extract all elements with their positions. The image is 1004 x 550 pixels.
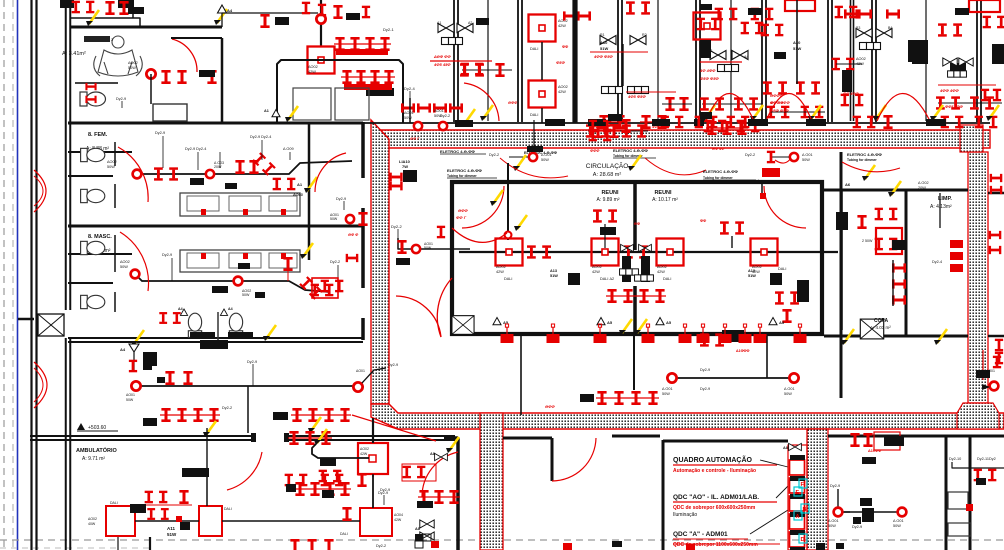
red wire diag bbox=[352, 415, 436, 441]
cluster right of column 1 bbox=[567, 431, 569, 433]
wall bottom center vertical bbox=[456, 438, 460, 550]
sink counter FEM bbox=[180, 193, 300, 216]
wall ambulatorio top bbox=[30, 436, 455, 440]
door arc amb bbox=[227, 452, 262, 490]
bowties bc bottom bbox=[415, 520, 434, 540]
wire REUNI main bbox=[459, 251, 838, 253]
svg-text:Dy2-9: Dy2-9 bbox=[155, 131, 165, 135]
office G lamp rows bbox=[936, 96, 1002, 128]
fixture south 4 bbox=[679, 324, 692, 343]
lamp row mid2 bbox=[341, 70, 395, 90]
text A 3.41 bbox=[62, 51, 86, 57]
text O01 circ west bbox=[424, 242, 433, 250]
wall LIMP divider bbox=[905, 190, 908, 336]
wall office partition 2 bbox=[618, 0, 622, 122]
lamp top 1 bbox=[105, 1, 144, 15]
wall big room top bbox=[503, 436, 660, 481]
wire reuni box1 riser bbox=[505, 163, 512, 240]
svg-text:DALI: DALI bbox=[778, 267, 786, 271]
svg-text:A6: A6 bbox=[845, 182, 851, 187]
svg-text:50W: 50W bbox=[126, 398, 134, 402]
office3 box bbox=[694, 13, 721, 40]
yellow arrows circ south bbox=[619, 319, 647, 335]
office B lamp rows bbox=[586, 124, 648, 137]
svg-text:DALI: DALI bbox=[110, 501, 118, 505]
svg-text:Δ O01: Δ O01 bbox=[662, 387, 673, 391]
svg-text:ELETROC 4-Θ-ΦΦ: ELETROC 4-Θ-ΦΦ bbox=[703, 169, 739, 174]
wall LIMP bottom bbox=[824, 335, 968, 338]
door arcs left upper bbox=[34, 170, 46, 212]
black rects top extra bbox=[476, 8, 969, 59]
svg-text:42W: 42W bbox=[360, 452, 368, 456]
wire FEM ceiling bbox=[137, 161, 352, 174]
wall ambulatorio door jambs bbox=[251, 433, 289, 442]
yellow arrow top 2 bbox=[214, 9, 227, 25]
svg-text:Φ5Φ Φ5Φ: Φ5Φ Φ5Φ bbox=[770, 108, 789, 113]
blackrect bc bbox=[320, 458, 336, 466]
wire limp right bbox=[939, 193, 941, 228]
wall stub bottom left bbox=[118, 537, 150, 550]
svg-text:ΦΦ 4ΦΦ: ΦΦ 4ΦΦ bbox=[843, 92, 860, 96]
text Dy2-4 right bbox=[404, 86, 415, 98]
text AMBULATORIO bbox=[76, 446, 118, 462]
cluster below band right bbox=[700, 332, 749, 353]
office1 text O01 bbox=[434, 109, 444, 118]
blackrect REUNI 1 bbox=[550, 269, 580, 285]
limp cluster lamps bbox=[857, 208, 897, 251]
box labels REUNI bbox=[496, 265, 786, 281]
door arc wc bbox=[172, 39, 197, 72]
stems FEM bbox=[163, 136, 290, 170]
battery amb mid bbox=[294, 482, 351, 496]
band text 5 bbox=[524, 151, 557, 155]
conduit riser office 0 bbox=[487, 0, 489, 121]
svg-text:Δ O09: Δ O09 bbox=[283, 147, 294, 151]
office1 red wire bbox=[430, 60, 492, 62]
svg-text:42W: 42W bbox=[856, 62, 864, 66]
hatched column bottom center bbox=[480, 413, 503, 550]
svg-text:ΔO04: ΔO04 bbox=[394, 513, 403, 517]
blackrect amb bbox=[182, 468, 334, 498]
office2 red texts bbox=[556, 45, 568, 65]
door threshold rects bbox=[694, 119, 946, 126]
lamp row above wire bbox=[334, 13, 391, 55]
corridor fixtures above band bbox=[589, 114, 631, 133]
lamp pair wc low bbox=[85, 83, 96, 103]
office D lamp rows bbox=[700, 97, 762, 132]
callout lines quadro bbox=[750, 460, 788, 534]
stems MASC bbox=[172, 258, 338, 282]
text A1 FEM bbox=[292, 182, 304, 197]
svg-text:A: 10.17 m²: A: 10.17 m² bbox=[652, 197, 678, 203]
text Dy2-9 wc bbox=[116, 97, 126, 108]
wire top mid bbox=[222, 6, 370, 27]
door arc FEM right bbox=[315, 153, 346, 192]
svg-text:51W: 51W bbox=[600, 46, 608, 51]
lamp pair top left bbox=[72, 1, 95, 14]
svg-text:ΔO01: ΔO01 bbox=[986, 369, 995, 373]
yellow arrows wall right bbox=[841, 329, 947, 345]
wall left outer bbox=[32, 0, 37, 550]
yellow arrow corridor 3 bbox=[873, 105, 886, 121]
wall right margin top bbox=[988, 193, 1004, 336]
battery bc 2 bbox=[417, 490, 460, 508]
svg-text:ΔO02: ΔO02 bbox=[308, 65, 318, 69]
svg-text:Tubing for dimmer: Tubing for dimmer bbox=[847, 158, 877, 162]
svg-text:ΘΦ Γ: ΘΦ Γ bbox=[410, 137, 420, 141]
office3 lamp row bbox=[706, 121, 748, 135]
svg-text:ΦΦ5 4ΦΦ: ΦΦ5 4ΦΦ bbox=[945, 105, 964, 109]
riser 575 thick bbox=[573, 0, 577, 123]
text FEM bbox=[86, 132, 109, 152]
fixture south 0 bbox=[501, 324, 514, 343]
svg-text:A1: A1 bbox=[437, 21, 441, 25]
svg-text:A13: A13 bbox=[748, 269, 755, 273]
svg-text:Dy2-4: Dy2-4 bbox=[932, 260, 942, 264]
node door right bbox=[760, 193, 766, 199]
wall QUADRO room bbox=[663, 440, 788, 550]
door arc REUNI right bbox=[764, 186, 806, 228]
svg-text:ΔO02: ΔO02 bbox=[558, 85, 568, 89]
limp cluster box bbox=[876, 228, 902, 254]
text br red bbox=[868, 449, 881, 453]
svg-text:ΔΘΦ ΦΦ: ΔΘΦ ΦΦ bbox=[433, 54, 451, 59]
svg-text:ΘΦ: ΘΦ bbox=[634, 222, 640, 226]
yellow arrow corridor 1 bbox=[750, 105, 763, 121]
red fixture band right bbox=[762, 151, 791, 177]
fixture south 5 bbox=[697, 324, 710, 343]
svg-text:REUNI: REUNI bbox=[654, 190, 672, 196]
svg-text:DALI Δ2: DALI Δ2 bbox=[600, 277, 614, 281]
svg-text:42W: 42W bbox=[558, 24, 566, 28]
text Dy2-1 bbox=[383, 27, 394, 32]
xbox column left lower bbox=[38, 314, 64, 336]
svg-text:Δ O01: Δ O01 bbox=[828, 519, 839, 523]
svg-text:Dy2-2: Dy2-2 bbox=[222, 406, 232, 410]
wire circ south 2 bbox=[633, 336, 635, 390]
wall MASC stall bbox=[68, 253, 132, 255]
fixture south 7 bbox=[794, 324, 807, 343]
texts FEM wire bbox=[155, 131, 294, 151]
svg-text:20W: 20W bbox=[918, 186, 926, 190]
reuni small marks bbox=[634, 219, 706, 226]
blackrect corr top bbox=[200, 340, 228, 349]
top corner black rects bbox=[60, 0, 928, 64]
svg-text:A: 28.68 m²: A: 28.68 m² bbox=[593, 172, 622, 178]
svg-text:42W: 42W bbox=[394, 518, 402, 522]
node wc ceiling bbox=[146, 69, 155, 78]
svg-text:Dy2-2: Dy2-2 bbox=[376, 544, 386, 548]
cluster band corner bbox=[389, 137, 420, 190]
band text 1 bbox=[440, 149, 486, 154]
office F lamps2 bbox=[832, 58, 862, 71]
yellow arrow corridor 0 bbox=[702, 105, 715, 121]
office C red texts 2 bbox=[626, 92, 676, 99]
office5 wire bbox=[796, 0, 798, 84]
cluster br lamps bbox=[850, 432, 900, 450]
yellow arrow corr bl bbox=[263, 325, 276, 341]
svg-text:QDC de sobrepor 600x600x250mm: QDC de sobrepor 600x600x250mm bbox=[673, 505, 756, 511]
fixture south 2 bbox=[594, 324, 607, 343]
svg-text:A5: A5 bbox=[666, 320, 672, 325]
battery circ south bbox=[580, 391, 659, 405]
svg-text:Δ O01: Δ O01 bbox=[893, 519, 904, 523]
text dy corr bbox=[247, 360, 257, 386]
svg-text:20W: 20W bbox=[214, 165, 222, 169]
band text 2 bbox=[447, 168, 497, 178]
svg-text:A13: A13 bbox=[550, 269, 557, 273]
sink faucets FEM bbox=[201, 209, 286, 215]
hatched corridor wall band top bbox=[373, 130, 990, 148]
door arc big room bbox=[552, 438, 596, 481]
office C lamps top bbox=[626, 1, 692, 111]
svg-text:A4: A4 bbox=[178, 307, 183, 311]
bowtie array office3 bbox=[600, 33, 649, 94]
text automacao sub bbox=[673, 468, 756, 474]
red wire limp bbox=[842, 162, 900, 172]
yellow arrow reuni nw bbox=[514, 215, 527, 231]
svg-text:ΘΦ Φ: ΘΦ Φ bbox=[348, 233, 359, 237]
office4 lamps top bbox=[715, 8, 774, 21]
red marks circ south bbox=[545, 404, 555, 409]
svg-text:ΔO01: ΔO01 bbox=[404, 111, 414, 115]
door arc amb right bbox=[422, 452, 458, 497]
node corr left bbox=[126, 381, 141, 402]
svg-text:ΘΦΦ: ΘΦΦ bbox=[545, 404, 555, 409]
svg-text:42W: 42W bbox=[496, 270, 504, 274]
svg-text:42W: 42W bbox=[657, 270, 665, 274]
svg-text:A: A bbox=[796, 514, 800, 520]
office2 lamps red bbox=[563, 11, 591, 20]
red box amb 2 bbox=[199, 506, 232, 536]
svg-text:A5: A5 bbox=[607, 320, 613, 325]
svg-text:A4: A4 bbox=[744, 55, 748, 59]
svg-text:+503.60: +503.60 bbox=[88, 425, 106, 431]
svg-text:A: 4.03 m²: A: 4.03 m² bbox=[870, 325, 891, 330]
wire br dy bbox=[830, 484, 850, 512]
texts amb dy bbox=[376, 491, 388, 548]
wall office partition 1 bbox=[518, 0, 522, 122]
toilet MASC L2 bbox=[81, 295, 105, 308]
xbox REUNI left wall bbox=[452, 316, 474, 335]
svg-text:COPA: COPA bbox=[874, 318, 888, 324]
red conduit curve reuni bbox=[452, 208, 507, 242]
svg-text:A8: A8 bbox=[415, 527, 420, 531]
svg-text:A8: A8 bbox=[783, 446, 788, 450]
blackrect REUNI 2 bbox=[748, 269, 782, 285]
svg-text:Dy2-9 Dy2-4: Dy2-9 Dy2-4 bbox=[250, 135, 271, 139]
svg-text:Dy2-9: Dy2-9 bbox=[852, 525, 862, 529]
cluster br black bbox=[862, 436, 904, 464]
door arc REUNI left bbox=[462, 186, 504, 228]
red box amb 1 bbox=[88, 501, 135, 536]
wire corr drop bbox=[247, 386, 249, 433]
svg-text:ELETROC 4-Θ-ΦΦ: ELETROC 4-Θ-ΦΦ bbox=[847, 152, 883, 157]
xbox COPA bbox=[860, 319, 883, 339]
text O02 50W bbox=[128, 61, 138, 70]
text box bc bbox=[360, 447, 369, 456]
svg-text:50W: 50W bbox=[784, 392, 792, 396]
lamp amb extra bbox=[319, 470, 352, 521]
lamps MASC 1 bbox=[283, 257, 292, 281]
wire circ south 3 bbox=[766, 336, 768, 378]
svg-text:8. MASC.: 8. MASC. bbox=[88, 234, 112, 240]
svg-text:R2: R2 bbox=[642, 33, 647, 37]
bowtie array office6 bbox=[856, 26, 892, 50]
node corr right bbox=[353, 363, 398, 392]
svg-text:CIRCULAÇÃO: CIRCULAÇÃO bbox=[586, 161, 629, 170]
sink faucets MASC bbox=[201, 253, 286, 259]
more thresholds bbox=[545, 112, 712, 126]
blue reference line bbox=[17, 0, 19, 550]
bowtie array office4 bbox=[708, 49, 748, 72]
lamp right mid margin bbox=[993, 356, 1001, 369]
wire br right bbox=[952, 462, 1004, 468]
svg-text:51W: 51W bbox=[748, 274, 756, 278]
lamp pair wc 2 bbox=[199, 70, 217, 84]
br red rects bbox=[853, 498, 874, 524]
svg-text:50W: 50W bbox=[107, 165, 115, 169]
svg-text:4Φ 4ΦΦ: 4Φ 4ΦΦ bbox=[699, 68, 716, 73]
yellow arrow amb door bbox=[203, 417, 321, 437]
wall bottom right v2 bbox=[969, 436, 972, 550]
battery corr 2 bbox=[273, 408, 351, 422]
band text 3 bbox=[613, 148, 656, 158]
text A10 51W b bbox=[793, 40, 801, 51]
lamp row horiz bbox=[401, 103, 463, 112]
svg-text:4Φ5 Φ5Φ: 4Φ5 Φ5Φ bbox=[627, 94, 646, 99]
text LIMP bbox=[930, 196, 952, 210]
red italic marks scatter bbox=[508, 101, 725, 153]
svg-text:Φ5Φ Φ5Φ: Φ5Φ Φ5Φ bbox=[700, 76, 719, 81]
svg-text:ΔO02: ΔO02 bbox=[88, 517, 97, 521]
donuts br bbox=[834, 508, 907, 517]
svg-text:E: E bbox=[796, 490, 800, 496]
yellow arrow bc2 bbox=[446, 437, 459, 453]
texts br right bbox=[949, 457, 996, 461]
bowtie array A1 bbox=[437, 21, 473, 45]
corner lamps right bbox=[983, 16, 1004, 29]
svg-text:42W: 42W bbox=[592, 270, 600, 274]
toilet bases MASC bbox=[190, 332, 253, 339]
battery amb bottom edge bbox=[290, 539, 333, 550]
wire corr main bbox=[136, 385, 358, 387]
office A lamp row bbox=[460, 63, 512, 77]
panel strip DIST bbox=[788, 445, 809, 550]
svg-text:ΔO02: ΔO02 bbox=[360, 447, 369, 451]
svg-text:Dy2-9: Dy2-9 bbox=[700, 387, 710, 391]
svg-text:Δ O02: Δ O02 bbox=[918, 181, 929, 185]
svg-text:Dy2-9: Dy2-9 bbox=[380, 488, 390, 492]
red battery right edge bbox=[990, 174, 1003, 194]
svg-text:4Φ5 45Φ: 4Φ5 45Φ bbox=[433, 62, 451, 67]
office E lamp row2 bbox=[767, 106, 825, 119]
limp blackrects bbox=[836, 212, 906, 250]
svg-text:ΔO02: ΔO02 bbox=[120, 260, 130, 264]
toilet MASC A bbox=[188, 313, 201, 337]
stall wall MASC bbox=[68, 235, 115, 312]
svg-text:Dy2-1: Dy2-1 bbox=[383, 27, 394, 32]
svg-text:Tubing for dimmer: Tubing for dimmer bbox=[703, 176, 733, 180]
yellow arrow corridor 4 bbox=[930, 105, 943, 121]
text room label top bbox=[84, 36, 114, 42]
svg-text:Dy2-9: Dy2-9 bbox=[830, 484, 840, 488]
svg-text:40W: 40W bbox=[88, 522, 96, 526]
svg-text:ΦΦ 4Φ: ΦΦ 4Φ bbox=[770, 100, 784, 105]
svg-text:ΔO02: ΔO02 bbox=[558, 19, 568, 23]
wall stub left bbox=[18, 318, 34, 321]
wall top of bathroom block bbox=[70, 26, 222, 29]
office B red texts bbox=[590, 52, 648, 59]
node right drop bbox=[414, 122, 422, 130]
lamps REUNI mid3 bbox=[720, 221, 744, 248]
svg-text:ΔO02: ΔO02 bbox=[856, 57, 866, 61]
yellow arrow bc bbox=[314, 429, 327, 445]
svg-text:4ΦΦ 4ΦΦ: 4ΦΦ 4ΦΦ bbox=[939, 88, 959, 93]
office3 lamps bbox=[598, 115, 668, 129]
blackrect corr v bbox=[143, 352, 157, 366]
svg-text:DALI: DALI bbox=[224, 507, 232, 511]
svg-text:AMBULATÓRIO: AMBULATÓRIO bbox=[76, 446, 118, 454]
svg-text:ΘΦ 4Φ: ΘΦ 4Φ bbox=[712, 147, 725, 151]
svg-text:Automação e controle - Ilumina: Automação e controle - Iluminação bbox=[673, 468, 756, 474]
wire riser 575 bbox=[574, 0, 576, 123]
office4 black rects bbox=[700, 4, 762, 15]
svg-text:8. FEM.: 8. FEM. bbox=[88, 132, 108, 138]
svg-text:A: 3.41m²: A: 3.41m² bbox=[62, 51, 86, 57]
red label corridor 1 bbox=[770, 93, 784, 105]
node circ top 2 bbox=[745, 153, 813, 162]
svg-text:ELETROC 4-Θ-ΦΦ: ELETROC 4-Θ-ΦΦ bbox=[440, 149, 476, 154]
cluster br right lamps bbox=[974, 469, 997, 485]
text QDC AO bbox=[673, 494, 777, 502]
fixture stems extra south bbox=[719, 324, 752, 343]
svg-text:Dy2-9: Dy2-9 bbox=[247, 360, 257, 364]
donut wire south bbox=[667, 373, 798, 382]
yellow arrow MASC bbox=[300, 243, 313, 259]
svg-text:Δ1ΦΦΦ: Δ1ΦΦΦ bbox=[736, 349, 749, 353]
svg-text:A4: A4 bbox=[228, 307, 233, 311]
red arc circ top2 bbox=[645, 158, 706, 175]
svg-text:Dy2-9: Dy2-9 bbox=[388, 363, 398, 367]
yellow arrow MASC2 bbox=[131, 330, 144, 346]
svg-text:Φ5Φ: Φ5Φ bbox=[556, 60, 566, 65]
yellow arrow office1 bbox=[455, 83, 499, 127]
lamps FEM 2 bbox=[235, 160, 258, 174]
text MASC bbox=[86, 234, 112, 254]
bowtie A8 bc bbox=[430, 452, 447, 461]
svg-text:ELETROC 4-Θ-ΦΦ: ELETROC 4-Θ-ΦΦ bbox=[447, 168, 483, 173]
conduit riser office 4 bbox=[925, 0, 927, 121]
wall REUNI outer bbox=[452, 182, 822, 334]
svg-text:QDC de sobrepor 1100x600x250mm: QDC de sobrepor 1100x600x250mm bbox=[673, 542, 758, 548]
yellow arrow corridor 2 bbox=[808, 105, 821, 121]
red arc circ top bbox=[500, 158, 568, 178]
svg-text:ΔO02: ΔO02 bbox=[107, 160, 117, 164]
black rects REUNI wall bbox=[722, 330, 744, 338]
svg-text:4ΦΦ Φ5Φ: 4ΦΦ Φ5Φ bbox=[593, 54, 613, 59]
svg-text:A1: A1 bbox=[264, 109, 269, 113]
office2 cluster mid bbox=[589, 125, 612, 141]
cluster amb center bbox=[130, 490, 192, 522]
office7 lamps bbox=[938, 23, 1001, 101]
svg-text:Dy2-2: Dy2-2 bbox=[489, 153, 499, 157]
battery amb row2 bbox=[285, 473, 367, 492]
blackrect FEM bbox=[190, 178, 237, 189]
red bits bottom edge bbox=[563, 543, 825, 550]
svg-text:Dy2-4: Dy2-4 bbox=[404, 86, 415, 91]
xbox column left upper bbox=[0, 0, 1, 1]
